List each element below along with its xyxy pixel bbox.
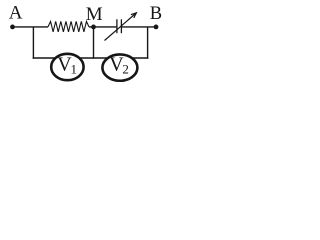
variable capacitor arrow shaft [105,13,137,41]
wire: right vertical drop to V2 branch [147,27,149,59]
svg-text:A: A [9,2,23,23]
variable capacitor arrowhead [131,13,136,18]
svg-text:B: B [150,4,162,24]
svg-text:M: M [86,4,103,25]
wire: middle vertical drop from node M [93,27,95,59]
wire: bottom branch, left elbow to V1 [33,57,60,59]
wire: V1 right to V2 left across middle drop [75,57,112,59]
voltmeter V2 body [102,54,137,80]
node A dot [10,25,15,30]
node B dot [154,25,159,30]
wire: resistor right lead to node M [89,26,117,28]
node M junction dot [91,25,96,30]
wire: left vertical drop to V1 branch [32,27,34,59]
background [0,0,168,83]
variable capacitor left plate [116,19,118,33]
wire: capacitor right plate to node B [121,26,156,28]
wire: V2 right to right elbow [130,57,148,59]
variable capacitor right plate [120,19,122,33]
voltmeter V1 body [51,54,83,80]
resistor between A and M [48,21,89,32]
wire: top rail from node A to resistor [13,26,49,28]
